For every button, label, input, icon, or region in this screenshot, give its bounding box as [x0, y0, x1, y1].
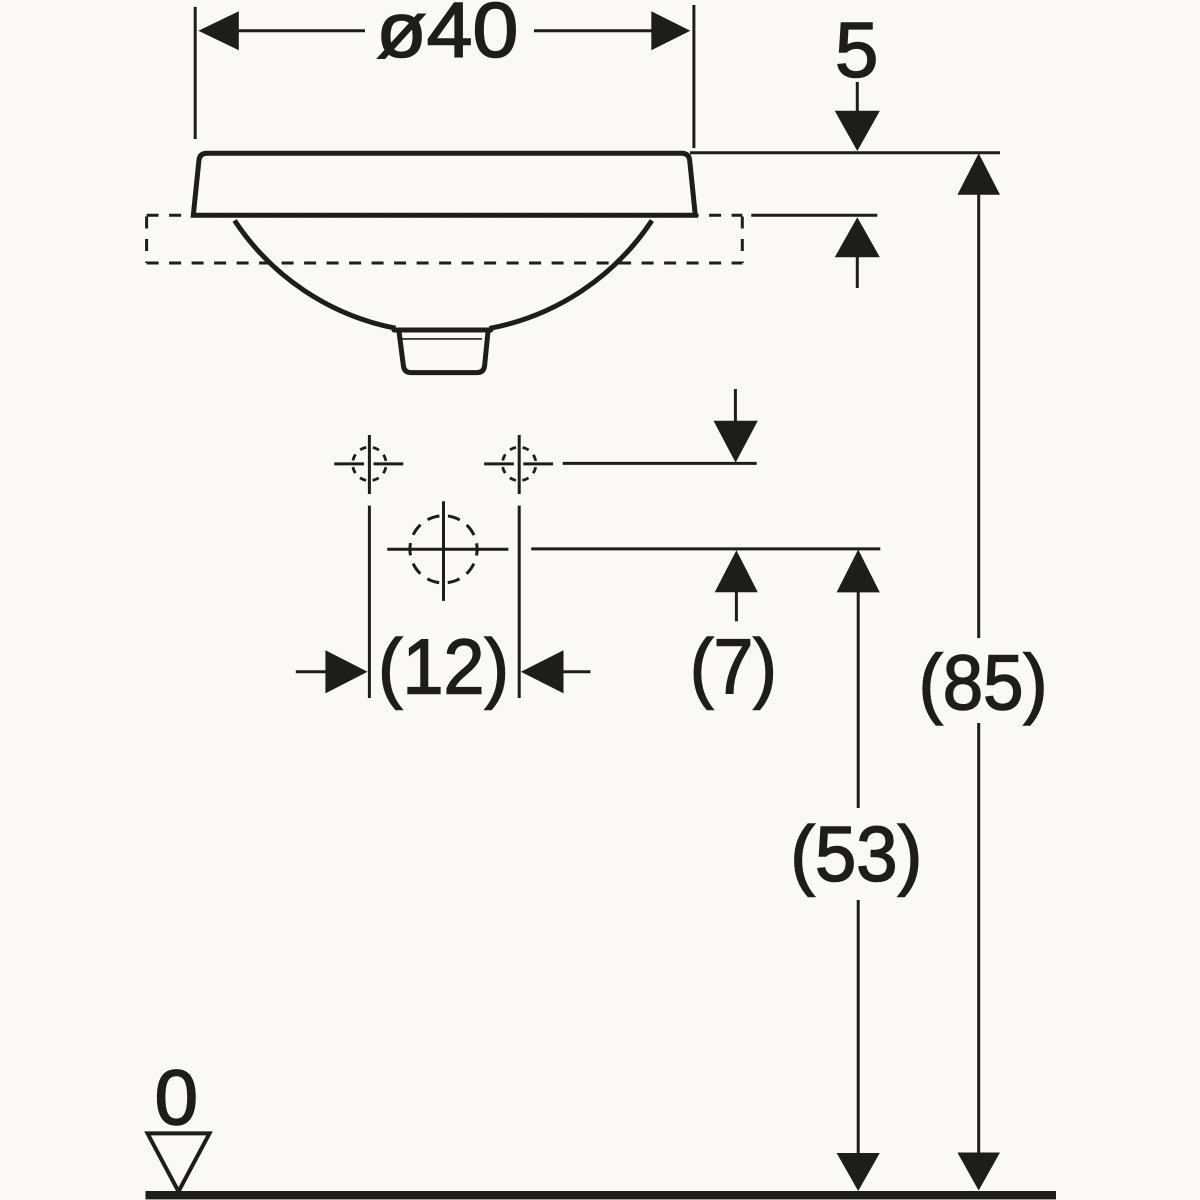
washbasin rim (cross-section)	[193, 153, 695, 215]
svg-text:5: 5	[835, 6, 878, 94]
dim (12) left extension line	[368, 506, 371, 698]
dim ø40 left extension line	[194, 7, 197, 139]
dim (53) line upper segment	[857, 591, 860, 808]
faucet hole symbol right: dashed circle	[502, 447, 536, 481]
dim (12) right arrow tail	[563, 670, 591, 673]
drain outlet top flange line	[394, 328, 491, 333]
rim top surface reference line	[690, 151, 1000, 154]
dim (53) bottom arrowhead	[837, 1153, 880, 1191]
faucet hole symbol right: horizontal centerline	[484, 462, 553, 465]
dim ø40 right extension line	[692, 5, 695, 148]
dim (7) down arrowhead	[714, 421, 758, 463]
countertop cutout dashed bottom edge	[147, 262, 743, 265]
datum triangle at level 0	[148, 1133, 210, 1191]
dim ø40 line left segment	[237, 29, 365, 32]
dim 5 down arrowhead	[835, 111, 880, 151]
dim ø40 left arrowhead	[198, 11, 238, 50]
drain hole symbol: vertical centerline	[442, 501, 445, 601]
ground baseline	[146, 1191, 1057, 1199]
dim (12) left arrowhead	[325, 650, 367, 693]
dim (7) up arrowhead	[715, 550, 758, 592]
washbasin bowl arc left	[235, 221, 396, 329]
faucet hole symbol left: vertical centerline	[368, 435, 371, 494]
svg-text:(12): (12)	[378, 623, 509, 711]
dim ø40 line right segment	[534, 29, 652, 32]
drain flange thin line	[402, 338, 482, 340]
dim (12) right arrowhead	[521, 650, 564, 693]
dim ø40 right arrowhead	[651, 11, 690, 50]
svg-text:(85): (85)	[919, 638, 1048, 726]
drain outlet body	[399, 332, 488, 373]
faucet hole symbol right: vertical centerline	[518, 435, 521, 494]
drain hole symbol: dashed circle	[410, 516, 477, 583]
dim (53) top arrowhead	[837, 550, 880, 593]
countertop cutout dashed left edge	[145, 217, 148, 264]
faucet hole symbol left: dashed circle	[353, 447, 387, 481]
washbasin bowl arc right	[490, 221, 652, 329]
dim (12) right extension line	[518, 506, 521, 698]
drain hole symbol: horizontal centerline	[387, 548, 508, 551]
dim (12) left arrow tail	[296, 670, 326, 673]
svg-text:(53): (53)	[790, 810, 922, 898]
dim 5 leader tail bottom	[856, 256, 859, 288]
dim (53) line lower segment	[857, 900, 860, 1154]
dim (85) line lower segment	[977, 723, 980, 1154]
countertop cutout dashed right edge	[741, 217, 744, 264]
svg-text:0: 0	[155, 1053, 198, 1141]
dim 5 up arrowhead	[835, 217, 880, 257]
countertop surface reference line	[751, 214, 877, 217]
svg-text:(7): (7)	[690, 623, 777, 711]
countertop cutout dashed top edge	[147, 214, 743, 217]
dim (85) bottom arrowhead	[957, 1153, 1000, 1191]
drain height reference line	[531, 547, 880, 550]
faucet hole height reference line	[563, 462, 757, 465]
dim (7) lower arrow tail	[735, 591, 738, 621]
svg-text:ø40: ø40	[376, 0, 518, 74]
dim 5 leader tail top	[856, 82, 859, 112]
faucet hole symbol left: horizontal centerline	[334, 462, 403, 465]
dim (7) upper arrow tail	[734, 389, 737, 422]
dim (85) top arrowhead	[957, 153, 1000, 194]
dim (85) line upper segment	[977, 193, 980, 638]
